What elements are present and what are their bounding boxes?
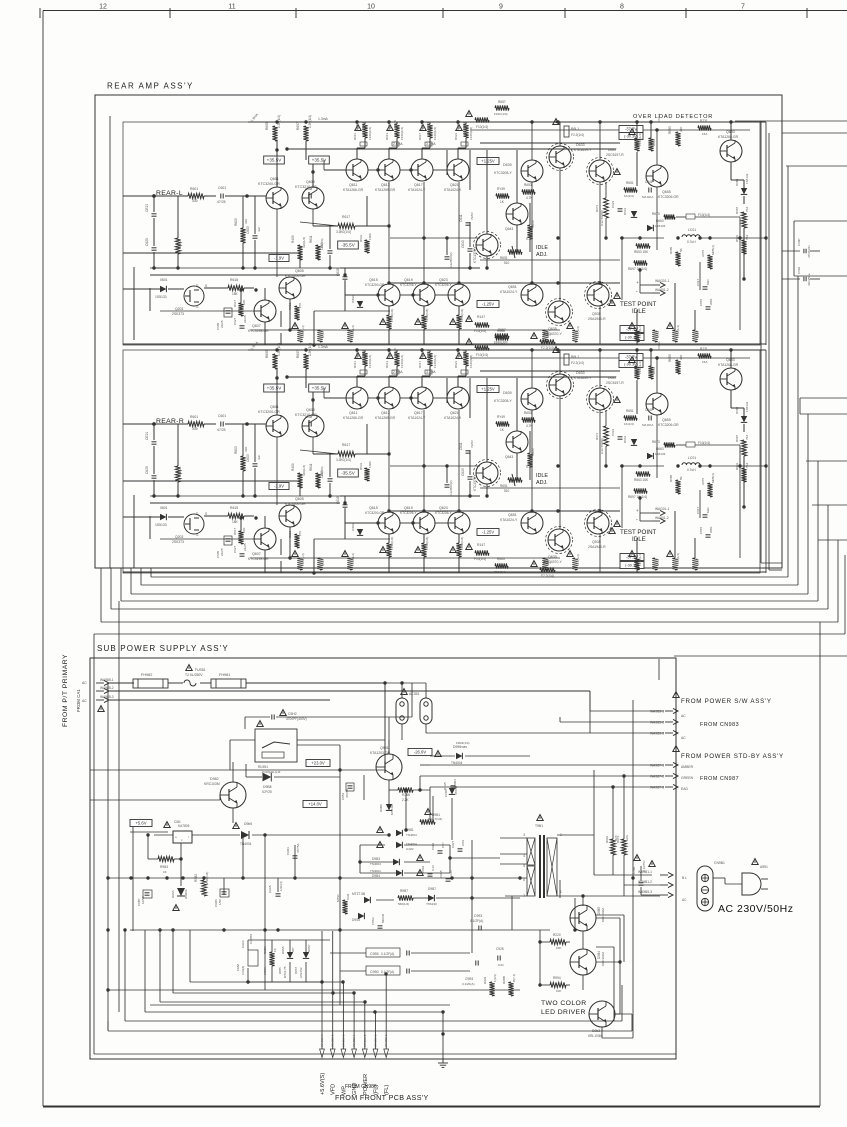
svg-text:R6L1: R6L1 — [571, 127, 579, 131]
svg-text:2SC5197-R: 2SC5197-R — [606, 381, 624, 385]
wire right stub — [800, 413, 847, 415]
resistor R646 vertical — [317, 558, 322, 570]
wire — [695, 216, 740, 218]
svg-text:AC351: AC351 — [409, 692, 419, 696]
svg-text:5: 5 — [523, 864, 525, 868]
svg-text:R671: R671 — [595, 432, 599, 440]
wire — [248, 939, 330, 941]
svg-text:WA986-2: WA986-2 — [374, 1034, 378, 1047]
svg-text:CE21: CE21 — [145, 204, 149, 212]
svg-text:C925: C925 — [496, 947, 504, 951]
warning symbol — [420, 125, 426, 131]
svg-text:Q615: Q615 — [369, 278, 378, 282]
svg-text:D9B7: D9B7 — [428, 887, 436, 891]
resistor R645 F10 — [475, 345, 489, 350]
wire vert — [177, 424, 179, 460]
svg-text:R687: R687 — [735, 206, 739, 214]
svg-text:F1S0(1/4): F1S0(1/4) — [638, 361, 642, 374]
junction — [638, 236, 641, 239]
svg-text:2.6mA: 2.6mA — [393, 370, 403, 374]
resistor R988 — [508, 982, 513, 996]
svg-text:CE21: CE21 — [145, 432, 149, 440]
wire — [174, 858, 181, 860]
svg-text:AC: AC — [82, 699, 87, 703]
resistor R643 vertical — [672, 330, 677, 342]
wire vert — [469, 253, 471, 268]
wire vert — [636, 122, 638, 138]
svg-text:RL951: RL951 — [258, 765, 268, 769]
svg-text:WA986-6: WA986-6 — [331, 1034, 335, 1047]
capacitor C927 0.01 — [458, 849, 463, 851]
wire vert — [446, 238, 448, 255]
svg-text:+5.6V: +5.6V — [135, 821, 146, 826]
svg-text:7: 7 — [741, 4, 745, 11]
wire — [596, 946, 614, 948]
svg-text:D639: D639 — [503, 391, 512, 395]
wire vert — [299, 260, 301, 268]
wire base row2 — [345, 294, 378, 296]
resistor R627 vertical — [634, 558, 639, 570]
svg-text:D9B4: D9B4 — [372, 874, 380, 878]
junction — [387, 120, 390, 123]
svg-text:C9A5: C9A5 — [268, 885, 272, 893]
wire vert — [656, 415, 658, 478]
wire — [388, 534, 390, 543]
junction — [468, 266, 471, 269]
svg-text:Q623: Q623 — [439, 278, 448, 282]
resistor R644 vertical — [347, 330, 352, 342]
svg-text:D9B9: D9B9 — [379, 804, 383, 812]
node — [245, 422, 249, 426]
svg-text:C69P: C69P — [797, 238, 801, 246]
wire vert — [674, 538, 676, 558]
resistor R617v 10K — [238, 303, 243, 316]
diode D986 W4004 — [177, 888, 185, 896]
svg-text:R677: R677 — [178, 468, 182, 476]
wire vert — [254, 468, 256, 496]
svg-text:KTC3208-Y: KTC3208-Y — [494, 171, 512, 175]
wire vert — [636, 538, 638, 558]
svg-text:FH982: FH982 — [141, 673, 152, 677]
wire — [388, 557, 390, 573]
wire — [388, 148, 390, 159]
wire vert — [276, 378, 278, 415]
svg-text:R611: R611 — [309, 463, 313, 471]
svg-text:KTC3206-GR: KTC3206-GR — [658, 423, 679, 427]
svg-text:C641: C641 — [645, 180, 653, 184]
wire rail y283 — [390, 282, 620, 284]
wire — [624, 884, 660, 886]
svg-text:R631: R631 — [359, 234, 363, 242]
transistor Q655 KTC3206-GR — [646, 393, 668, 415]
svg-text:47/75A: 47/75A — [296, 843, 300, 853]
svg-text:D9S6: D9S6 — [171, 890, 175, 898]
svg-text:D639: D639 — [503, 163, 512, 167]
junction — [285, 375, 288, 378]
resistor R994 10K — [550, 982, 566, 987]
wire rail2 — [470, 357, 750, 359]
warning symbol T981 — [537, 815, 543, 821]
svg-text:F160(1/4): F160(1/4) — [368, 127, 372, 140]
wire vert — [312, 209, 314, 226]
junction — [676, 464, 679, 467]
svg-text:KTC3206-Y: KTC3206-Y — [435, 283, 453, 287]
capacitor C641 MA DKA — [649, 188, 651, 193]
svg-text:R9B3: R9B3 — [160, 865, 168, 869]
svg-text:EAD: EAD — [681, 787, 689, 791]
wire vert — [559, 717, 561, 722]
svg-text:1S5133: 1S5133 — [745, 401, 749, 412]
wire — [297, 739, 385, 741]
resistor R615 18K — [228, 285, 244, 290]
junction — [253, 494, 256, 497]
transistor Q607 KTC3198-GR — [254, 528, 276, 550]
svg-text:ADJ.: ADJ. — [536, 252, 548, 258]
svg-text:10: 10 — [367, 4, 375, 11]
svg-text:D9S7: D9S7 — [307, 944, 311, 952]
ruler tick — [39, 8, 41, 18]
wire — [246, 776, 262, 778]
amp bus line 1 — [151, 576, 788, 578]
connector WA987-3 — [650, 784, 678, 789]
connector WA985-3 — [96, 697, 109, 702]
junction — [181, 876, 184, 879]
voltage +14.0V — [303, 801, 327, 808]
svg-text:F1S0(1/4): F1S0(1/4) — [390, 309, 394, 322]
svg-text:F160(1/4): F160(1/4) — [400, 127, 404, 140]
wire vert — [299, 253, 301, 260]
wire — [425, 683, 427, 698]
junction — [698, 236, 701, 239]
wire right vert — [817, 461, 819, 601]
svg-text:TEST POINT: TEST POINT — [620, 529, 657, 536]
svg-text:R677: R677 — [178, 240, 182, 248]
connector WA983-1 — [650, 708, 678, 713]
wire — [442, 1012, 444, 1057]
transformer T981 secondary winding — [547, 838, 557, 896]
wire right vert — [799, 398, 801, 414]
svg-text:3.3K0(1/4): 3.3K0(1/4) — [336, 230, 351, 234]
wire — [271, 966, 273, 982]
diode D955 — [287, 952, 293, 958]
resistor R617v 10K — [238, 531, 243, 544]
svg-text:W7: W7 — [291, 947, 295, 952]
wire base row1 — [433, 169, 447, 171]
wire — [423, 557, 425, 573]
node — [152, 194, 156, 198]
wire — [743, 456, 745, 507]
wire — [148, 858, 158, 860]
svg-text:510: 510 — [504, 489, 510, 493]
transistor Q605 KTC3200-GR — [279, 277, 301, 299]
wire vert — [147, 835, 149, 859]
svg-text:+35.5V: +35.5V — [267, 386, 283, 391]
svg-text:3: 3 — [523, 833, 525, 837]
wire vert — [446, 378, 448, 403]
wire — [590, 710, 664, 712]
junction — [556, 236, 559, 239]
amp bus wire v — [120, 568, 122, 601]
junction — [152, 494, 155, 497]
wire vert — [636, 350, 638, 366]
wire vert — [471, 840, 473, 930]
wire — [153, 218, 155, 246]
svg-text:C815: C815 — [699, 298, 703, 306]
svg-text:0.1V: 0.1V — [431, 865, 435, 871]
wire — [356, 376, 358, 387]
wire — [411, 952, 470, 954]
svg-text:KTA1024-Y: KTA1024-Y — [408, 416, 426, 420]
capacitor C690 4700/26V — [804, 249, 806, 254]
wire vert — [469, 222, 471, 247]
wire — [123, 571, 766, 573]
wire vert — [739, 217, 741, 330]
wire mid rail — [150, 495, 340, 497]
svg-text:D641: D641 — [623, 207, 627, 215]
junction — [635, 120, 638, 123]
wire right vert — [768, 133, 770, 570]
wire — [619, 962, 621, 1014]
wire base row1 — [324, 397, 346, 399]
wire — [247, 940, 249, 950]
svg-text:F2.2(1/4): F2.2(1/4) — [576, 554, 580, 566]
wire staircase y1021 — [125, 1020, 622, 1022]
wire vert — [242, 424, 244, 456]
wire — [150, 1004, 450, 1006]
wire vert — [636, 380, 638, 414]
svg-text:R6L1: R6L1 — [571, 355, 579, 359]
svg-text:R623: R623 — [387, 351, 391, 358]
resistor R611 — [315, 473, 320, 488]
wire — [423, 329, 425, 345]
svg-text:W9SA: W9SA — [263, 967, 267, 975]
svg-text:WA985-1: WA985-1 — [100, 678, 114, 682]
svg-text:F16C(1/4): F16C(1/4) — [494, 340, 508, 344]
wire — [731, 407, 744, 409]
junction — [445, 464, 448, 467]
diode D990 TN4004 — [456, 753, 462, 759]
diode D611 — [357, 529, 363, 535]
wire — [432, 796, 434, 820]
junction — [338, 928, 341, 931]
wire mid rail2 — [390, 465, 480, 467]
warning symbol — [420, 353, 426, 359]
junction — [738, 236, 741, 239]
fuse holder FH981 — [211, 679, 246, 688]
wire vert — [599, 182, 601, 284]
resistor R663 F1S — [495, 335, 508, 340]
capacitor C985 1/2F — [276, 894, 281, 896]
svg-text:KTC3206-Y: KTC3206-Y — [400, 511, 418, 515]
diode D661 1S5133 — [631, 439, 637, 445]
resistor R613 270 — [294, 534, 299, 548]
svg-text:Q203: Q203 — [175, 307, 183, 311]
capacitor C9S5 0.01 — [446, 879, 451, 881]
junction — [409, 168, 412, 171]
svg-text:F1S0(1/4): F1S0(1/4) — [460, 537, 464, 550]
svg-text:R673: R673 — [652, 212, 660, 216]
svg-text:D9B3: D9B3 — [372, 857, 380, 861]
wire staircase v — [189, 930, 191, 982]
svg-text:2SK373: 2SK373 — [172, 540, 184, 544]
svg-text:7K4: 7K4 — [745, 234, 749, 240]
wire vert — [180, 843, 182, 886]
junction — [304, 348, 307, 351]
wire — [109, 682, 134, 684]
svg-text:WA985-2: WA985-2 — [100, 686, 114, 690]
wire — [596, 961, 620, 963]
junction — [146, 876, 149, 879]
svg-text:R651: R651 — [626, 181, 634, 185]
trimmer R651 510 — [508, 477, 522, 482]
capacitor C987 10/50 — [143, 890, 152, 898]
svg-text:18K: 18K — [232, 292, 239, 296]
resistor R671 0.22 5W — [604, 198, 609, 218]
svg-text:TN4004: TN4004 — [370, 869, 381, 873]
svg-text:R631: R631 — [359, 462, 363, 470]
svg-text:M21: M21 — [706, 507, 710, 513]
wire — [108, 877, 500, 879]
junction — [638, 464, 641, 467]
junction — [598, 281, 601, 284]
transistor Q655 KTC3206-GR — [646, 165, 668, 187]
wire — [154, 267, 178, 269]
wire vert — [516, 150, 518, 203]
svg-text:F1S0(1/4): F1S0(1/4) — [351, 553, 355, 566]
wire — [123, 343, 766, 345]
resistor R657b F2.2 — [540, 567, 555, 572]
wire bottom bus2 — [43, 1106, 820, 1108]
svg-text:0.22/50V(2): 0.22/50V(2) — [449, 480, 453, 496]
resistor R991 — [610, 839, 615, 855]
wire — [240, 290, 242, 303]
resistor R621 vertical — [634, 366, 639, 379]
junction — [179, 857, 182, 860]
wire vert — [254, 240, 256, 268]
warning symbol — [355, 125, 361, 131]
svg-text:WA986-4: WA986-4 — [352, 1034, 356, 1047]
svg-text:18K: 18K — [232, 520, 239, 524]
svg-text:D1H5: D1H5 — [443, 782, 447, 790]
plug A991 — [742, 873, 761, 895]
svg-text:0.22 5W(NI): 0.22 5W(NI) — [600, 438, 604, 454]
relay RL951 — [255, 729, 297, 762]
wire — [743, 408, 745, 416]
junction — [485, 494, 488, 497]
svg-text:1.3mA: 1.3mA — [318, 345, 329, 349]
svg-text:R627: R627 — [420, 123, 424, 130]
wire — [640, 292, 652, 294]
svg-text:Q619: Q619 — [404, 506, 413, 510]
resistor above Q621 — [463, 352, 468, 366]
svg-text:F5A0(1/4): F5A0(1/4) — [426, 349, 430, 362]
svg-text:7K4: 7K4 — [745, 434, 749, 440]
svg-text:0601: 0601 — [160, 506, 168, 510]
svg-text:Q607: Q607 — [252, 324, 261, 328]
junction — [146, 833, 149, 836]
resistor R609 — [297, 473, 302, 488]
svg-text:KTC3200-GR: KTC3200-GR — [365, 283, 385, 287]
capacitor C625 470/50 — [152, 248, 157, 250]
wire vert — [405, 790, 407, 830]
svg-text:FROM CN987: FROM CN987 — [700, 776, 739, 782]
wire vert — [589, 691, 591, 711]
svg-text:3.7mA: 3.7mA — [426, 370, 436, 374]
wire staircase v — [144, 930, 146, 1012]
wire — [271, 940, 273, 952]
transistor Q623 KTC3206-Y — [448, 284, 470, 306]
wire — [168, 682, 183, 684]
svg-text:C641: C641 — [645, 408, 653, 412]
junction — [581, 894, 584, 897]
wire vert — [699, 262, 701, 290]
svg-text:C9R4: C9R4 — [465, 977, 473, 981]
junction — [538, 940, 541, 943]
wire vert — [529, 431, 531, 453]
wire — [426, 732, 590, 734]
capacitor C609 — [328, 251, 333, 253]
junction — [338, 768, 341, 771]
wire — [743, 424, 745, 432]
svg-text:KRC103M: KRC103M — [204, 782, 220, 786]
svg-text:0.C4/5A: 0.C4/5A — [249, 934, 253, 944]
capacitor C608 — [309, 422, 311, 427]
wire vert — [264, 288, 266, 300]
capacitor C617 M21 — [703, 287, 708, 289]
warning symbol — [614, 397, 620, 403]
svg-text:LC01: LC01 — [688, 456, 696, 460]
wire — [730, 162, 732, 180]
svg-text:R668: R668 — [546, 559, 550, 566]
connector WA985-2 — [96, 688, 109, 693]
svg-text:30K: 30K — [679, 127, 683, 132]
svg-text:0601: 0601 — [160, 278, 168, 282]
diode D981 TN4004 — [396, 830, 402, 836]
junction — [764, 236, 767, 239]
svg-text:R617: R617 — [418, 132, 422, 140]
wire vert — [621, 466, 623, 528]
wire — [457, 376, 459, 387]
svg-text:Q617: Q617 — [414, 183, 423, 187]
svg-text:F1S0(1/4): F1S0(1/4) — [638, 133, 642, 146]
junction — [698, 464, 701, 467]
wire — [312, 160, 314, 187]
resistor R641 F2.2 — [564, 126, 569, 137]
wire vert — [636, 342, 638, 345]
capacitor C481 0.1/275V — [639, 883, 644, 885]
wire — [154, 834, 173, 836]
wire — [401, 683, 403, 698]
wire vert — [280, 311, 282, 327]
svg-text:D9S5: D9S5 — [281, 946, 285, 954]
diode D685 1S5133 — [741, 416, 747, 422]
junction — [620, 464, 623, 467]
wire — [402, 682, 426, 684]
svg-text:33K: 33K — [244, 447, 248, 452]
svg-text:WA986-3: WA986-3 — [363, 1034, 367, 1047]
junction — [638, 496, 641, 499]
svg-text:270: 270 — [298, 303, 302, 308]
junction — [275, 348, 278, 351]
amp bus wire v — [100, 568, 102, 622]
connector pin WA986-2 — [375, 1012, 377, 1049]
junction — [411, 521, 414, 524]
wire — [90, 799, 220, 801]
svg-text:Q535: Q535 — [592, 312, 601, 316]
svg-text:R617: R617 — [233, 299, 237, 307]
transistor Q617 KTA1024-Y — [411, 159, 433, 181]
svg-text:+23.0V: +23.0V — [311, 761, 325, 766]
